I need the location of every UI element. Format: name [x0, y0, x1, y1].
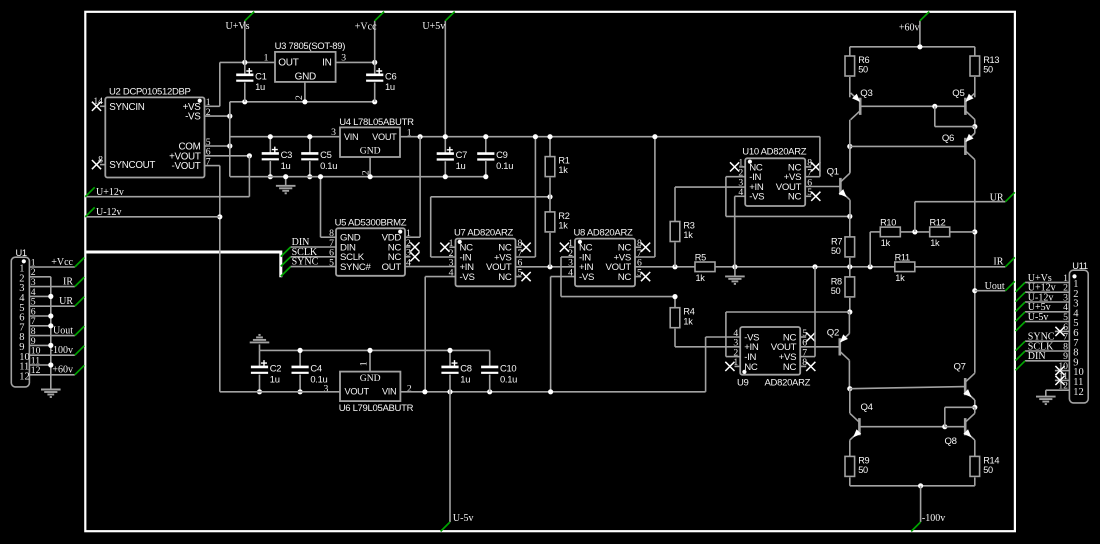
wire U11 pin 12 — [1046, 389, 1070, 391]
wire -12v vertical — [219, 166, 221, 392]
svg-text:1k: 1k — [683, 230, 693, 240]
junction — [918, 483, 923, 488]
wire U8 VOUT — [635, 266, 695, 268]
wire U1 pin 2 — [29, 276, 50, 278]
no-connect U11 pin10 — [1055, 366, 1064, 375]
svg-text:GND: GND — [360, 146, 381, 157]
wire Q1 emitter — [849, 200, 851, 216]
svg-text:0.1u: 0.1u — [500, 373, 517, 384]
port tick U11 pin 1 — [1016, 282, 1026, 292]
resistor R5 — [695, 252, 715, 283]
wire U5 gnd riser — [320, 177, 322, 238]
svg-text:1k: 1k — [558, 165, 568, 175]
wire +5v rail — [420, 136, 820, 138]
wire Q1 collector — [849, 146, 851, 172]
junction — [217, 214, 222, 219]
junction — [48, 323, 53, 328]
junction — [257, 389, 262, 394]
svg-text:IR: IR — [993, 257, 1003, 268]
svg-text:IN: IN — [322, 58, 331, 69]
svg-text:U3 7805(SOT-89): U3 7805(SOT-89) — [275, 41, 346, 52]
no-connect U7 pin8 — [522, 243, 531, 252]
op-amp U10 AD820ARZ — [738, 147, 812, 206]
junction — [372, 60, 377, 65]
svg-text:50: 50 — [858, 465, 868, 475]
wire C9 top — [485, 137, 487, 153]
wire U11 gnd drop — [1045, 390, 1047, 396]
wire U11 pin 10 — [1055, 370, 1070, 372]
svg-text:U8 AD820ARZ: U8 AD820ARZ — [574, 227, 634, 238]
op-amp U8 AD820ARZ — [568, 227, 642, 286]
svg-text:R13: R13 — [983, 55, 999, 65]
wire U1 pin 6 — [29, 315, 50, 317]
wire U7 +VS riser — [534, 137, 536, 257]
transistor Q7 — [954, 361, 975, 400]
bus entry IR — [75, 277, 85, 287]
svg-text:1k: 1k — [683, 316, 693, 326]
svg-text:GND: GND — [295, 71, 316, 82]
junction — [917, 44, 922, 49]
transistor Q3 — [851, 88, 873, 120]
wire U1 pin 7 — [29, 325, 50, 327]
wire U-5v drop — [449, 392, 451, 522]
resistor R1 — [545, 156, 570, 177]
wire R10 riser — [869, 232, 871, 267]
wire U10 VOUT to Q1 — [805, 186, 840, 188]
junction — [972, 124, 977, 129]
wire U1 pin 12 — [29, 374, 74, 376]
no-connect U9 pin1 — [725, 362, 734, 371]
wire U1 pin 10 — [29, 354, 74, 356]
capacitor C8 — [441, 360, 471, 384]
wire U10 +VS — [805, 176, 820, 178]
wire Q6 collector long — [974, 160, 976, 373]
wire Q7 base sloped — [850, 387, 965, 389]
junction — [418, 134, 423, 139]
wire Q2 emitter up — [848, 312, 850, 334]
bus entry SCLK — [281, 257, 291, 267]
wire Q5 diode link h — [935, 126, 975, 128]
transistor Q8 — [945, 413, 975, 447]
junction — [283, 174, 288, 179]
wire C8 top — [449, 350, 451, 366]
capacitor C7 — [437, 147, 467, 171]
wire U+5v vertical / C7 top — [444, 21, 446, 153]
capacitor C3 — [262, 147, 292, 171]
capacitor C9 — [477, 149, 513, 171]
wire U10 -IN — [726, 176, 745, 178]
bus — [85, 252, 280, 277]
resistor R12 — [930, 217, 950, 248]
svg-text:OUT: OUT — [382, 262, 402, 273]
transistor Q4 — [850, 402, 874, 440]
wire C2 top — [259, 350, 261, 366]
junction — [672, 294, 677, 299]
wire U8 +VS — [635, 256, 655, 258]
no-connect U10 pin5 — [811, 192, 820, 201]
wire R4 to U9 +IN — [675, 346, 740, 348]
svg-text:1k: 1k — [696, 273, 706, 283]
wire U9 -IN riser — [725, 312, 727, 357]
wire R4 bottom — [674, 329, 676, 347]
svg-text:U4 L78L05ABUTR: U4 L78L05ABUTR — [339, 117, 414, 128]
svg-text:-VS: -VS — [749, 192, 764, 203]
wire U9 +VS — [800, 356, 815, 358]
svg-text:C10: C10 — [500, 363, 516, 374]
junction — [298, 348, 303, 353]
wire R7 top — [849, 216, 851, 237]
svg-text:3: 3 — [331, 127, 336, 138]
svg-text:C1: C1 — [255, 70, 266, 81]
wire IR — [915, 266, 1005, 268]
wire SCLK — [291, 256, 336, 258]
port tick U11 pin 9 — [1016, 361, 1026, 371]
wire 12v row to U4 VIN — [230, 136, 340, 138]
wire U1 pin 9 — [29, 344, 50, 346]
wire R10 left — [870, 231, 880, 233]
wire R3 bottom — [674, 243, 676, 267]
svg-text:NC: NC — [783, 362, 797, 373]
wire U2 +VOUT — [205, 155, 250, 157]
wire U1 pin 4 — [29, 295, 50, 297]
wire U2 -VS — [205, 115, 230, 117]
wire gnd rail top — [230, 101, 375, 103]
wire U11 pin 11 — [1055, 379, 1070, 381]
wire U2 COM — [205, 145, 230, 147]
no-connect U11 pin11 — [1055, 376, 1064, 385]
wire UR — [915, 201, 1006, 203]
no-connect U10 pin1 — [730, 162, 739, 171]
svg-text:5: 5 — [329, 257, 334, 268]
svg-text:NC: NC — [618, 272, 632, 283]
junction — [868, 264, 873, 269]
svg-text:U11: U11 — [1072, 261, 1088, 271]
wire R12 right — [950, 231, 975, 233]
wire Q2 emitter row — [726, 311, 850, 313]
svg-text:R4: R4 — [683, 307, 694, 317]
junction — [652, 134, 657, 139]
junction — [483, 174, 488, 179]
junction — [443, 134, 448, 139]
resistor R6 — [845, 55, 870, 76]
svg-text:U+12v: U+12v — [96, 187, 124, 198]
resistor R4 — [670, 307, 695, 328]
no-connect U7 pin1 — [440, 243, 449, 252]
svg-text:1k: 1k — [881, 238, 891, 248]
port IR tick — [1005, 257, 1014, 266]
junction — [812, 264, 817, 269]
wire R3 top — [674, 187, 676, 221]
wire R4 top — [674, 297, 676, 308]
wire U1 pin 3 — [29, 286, 74, 288]
port +60v tick — [920, 12, 929, 21]
wire UR riser — [914, 202, 916, 232]
wire C10 top — [489, 350, 491, 366]
svg-text:U-12v: U-12v — [96, 207, 122, 218]
wire C4 top — [299, 350, 301, 366]
wire U11 pin 6 — [1055, 330, 1070, 332]
regulator U3 7805 — [264, 41, 347, 100]
wire U6 gnd riser — [369, 350, 371, 371]
wire U11 pin 2 — [1025, 291, 1069, 293]
svg-text:R5: R5 — [695, 252, 706, 262]
svg-text:1u: 1u — [385, 81, 395, 92]
wire U9 -VS — [706, 336, 741, 338]
wire U1 pin 1 — [29, 266, 74, 268]
wire +60v entry — [919, 21, 921, 47]
svg-text:R3: R3 — [683, 221, 694, 231]
svg-text:Q5: Q5 — [952, 88, 964, 99]
wire -5v rail left — [220, 391, 340, 393]
svg-text:U-5v: U-5v — [1028, 312, 1049, 323]
svg-text:GND: GND — [360, 373, 381, 384]
wire gnd stub mid — [734, 267, 736, 276]
resistor R8 — [831, 277, 855, 297]
op-amp U2 DCP010512DBP — [93, 86, 210, 177]
junction — [302, 99, 307, 104]
svg-text:AD820ARZ: AD820ARZ — [765, 378, 811, 389]
port U+12v tick — [85, 187, 94, 196]
junction — [847, 214, 852, 219]
wire SYNC — [291, 266, 336, 268]
svg-text:SYNC#: SYNC# — [340, 262, 371, 273]
svg-text:U1: U1 — [16, 248, 27, 258]
junction — [972, 229, 977, 234]
svg-text:NC: NC — [788, 192, 802, 203]
svg-text:Q6: Q6 — [942, 133, 954, 144]
wire Q4-Q8 base — [859, 426, 944, 428]
svg-text:R11: R11 — [895, 252, 910, 262]
svg-text:U+5v: U+5v — [422, 21, 445, 32]
no-connect U9 pin8 — [806, 362, 815, 371]
capacitor C5 — [301, 149, 337, 171]
port tick U11 pin 5 — [1016, 322, 1026, 332]
svg-text:U-5v: U-5v — [453, 513, 474, 524]
svg-text:SYNCIN: SYNCIN — [109, 102, 144, 113]
wire C7 bottom — [444, 161, 446, 176]
wire R1 top — [549, 137, 551, 157]
no-connect U2 pin 14 — [92, 102, 101, 111]
resistor R14 — [970, 455, 999, 476]
no-connect U2 pin 8 — [92, 160, 101, 169]
op-amp U7 AD820ARZ — [449, 227, 523, 286]
svg-text:UR: UR — [990, 192, 1004, 203]
port UR tick — [1005, 192, 1014, 201]
svg-text:1k: 1k — [895, 273, 905, 283]
wire Q8 collector up — [974, 407, 976, 413]
junction — [732, 264, 737, 269]
junction — [972, 288, 977, 293]
junction — [847, 309, 852, 314]
junction — [447, 348, 452, 353]
wire C8 bottom — [449, 375, 451, 392]
wire R3 top row to U10 +IN — [675, 186, 745, 188]
svg-text:Q1: Q1 — [827, 167, 839, 178]
junction — [847, 264, 852, 269]
junction — [227, 114, 232, 119]
wire Q7emitter to base row — [944, 407, 946, 426]
svg-text:R1: R1 — [558, 156, 569, 166]
wire U9 +VS riser — [814, 267, 816, 357]
svg-text:UR: UR — [59, 296, 73, 307]
no-connect U5 pin2 — [410, 242, 419, 251]
resistor R2 — [545, 211, 570, 232]
wire R1 bottom — [549, 178, 551, 197]
junction — [672, 264, 677, 269]
svg-text:VIN: VIN — [382, 387, 396, 397]
wire Q3-Q5 base — [860, 105, 965, 107]
junction — [48, 343, 53, 348]
svg-text:R9: R9 — [858, 455, 869, 465]
wire U8 +VS riser — [654, 137, 656, 257]
svg-text:-100v: -100v — [922, 513, 945, 524]
junction — [547, 264, 552, 269]
wire U5 VDD — [405, 236, 420, 238]
svg-text:C5: C5 — [320, 149, 331, 160]
svg-text:50: 50 — [831, 286, 841, 296]
svg-text:U9: U9 — [737, 378, 749, 389]
wire U-12v — [85, 216, 220, 218]
junction — [227, 143, 232, 148]
junction — [247, 153, 252, 158]
junction — [48, 362, 53, 367]
wire U11 pin 5 — [1025, 321, 1069, 323]
wire Q7 emitter row — [945, 406, 975, 408]
port Uout tick — [1005, 281, 1014, 290]
wire row 350 — [260, 349, 490, 351]
svg-text:+Vcc: +Vcc — [355, 22, 377, 33]
wire C4 bottom — [299, 375, 301, 392]
svg-text:VIN: VIN — [344, 132, 358, 142]
bus entry DIN — [281, 247, 291, 257]
junction — [942, 424, 947, 429]
junction — [242, 60, 247, 65]
svg-text:1k: 1k — [558, 221, 568, 231]
wire Uout — [975, 290, 1006, 292]
transistor Q6 — [942, 133, 975, 160]
wire Q6 emitter — [974, 127, 976, 133]
wire U1 ground bus — [50, 277, 52, 390]
wire U10 -VS drop — [734, 196, 736, 266]
no-connect U5 pin3 — [410, 252, 419, 261]
wire U2 +VS — [205, 105, 220, 107]
svg-text:VOUT: VOUT — [345, 387, 370, 397]
port tick U11 pin 4 — [1016, 312, 1026, 322]
resistor R13 — [970, 55, 999, 76]
svg-text:VOUT: VOUT — [372, 132, 397, 142]
wire R9 bottom — [849, 477, 851, 485]
port tick U11 pin 8 — [1016, 351, 1026, 361]
svg-text:U7 AD820ARZ: U7 AD820ARZ — [454, 227, 514, 238]
svg-text:C6: C6 — [385, 70, 396, 81]
wire R8 bottom — [849, 298, 851, 312]
transistor Q1 — [827, 167, 850, 200]
no-connect U8 pin1 — [560, 243, 569, 252]
wire U11 pin 4 — [1025, 311, 1069, 313]
svg-text:R7: R7 — [831, 237, 842, 247]
wire U8 feedback down — [560, 257, 562, 297]
wire R8 top — [849, 267, 851, 277]
port tick U11 pin 3 — [1016, 302, 1026, 312]
wire U8 feedback bottom — [561, 296, 675, 298]
svg-text:1u: 1u — [270, 373, 280, 384]
regulator U4 L78L05ABUTR — [331, 117, 414, 175]
wire U5 OUT to U7 +IN — [405, 266, 456, 268]
svg-text:C2: C2 — [270, 363, 281, 374]
wire gnd stub — [285, 177, 287, 186]
svg-text:3: 3 — [324, 383, 329, 394]
wire U11 pin 3 — [1025, 301, 1069, 303]
wire C6 bottom — [374, 83, 376, 102]
svg-text:U+Vs: U+Vs — [226, 21, 250, 32]
op-amp U9 AD820ARZ — [733, 327, 807, 375]
wire U9 VOUT to Q2 — [800, 346, 840, 348]
resistor R9 — [845, 455, 870, 476]
wire U7 +VS — [516, 256, 536, 258]
svg-text:1u: 1u — [281, 160, 291, 171]
capacitor C1 — [236, 68, 266, 92]
no-connect U10 pin8 — [811, 162, 820, 171]
port tick U11 pin 2 — [1016, 292, 1026, 302]
svg-text:Q4: Q4 — [861, 402, 874, 413]
wire U8 -IN — [561, 256, 575, 258]
wire U11 pin 9 — [1025, 360, 1069, 362]
svg-text:1: 1 — [359, 361, 370, 366]
connector U11 — [1058, 261, 1088, 403]
wire U9 -VS drop — [705, 337, 707, 392]
junction — [298, 389, 303, 394]
port -100v tick — [911, 522, 920, 531]
svg-text:2: 2 — [294, 95, 305, 100]
wire gnd stub down — [259, 344, 261, 350]
wire Q7 emitter down — [974, 400, 976, 407]
wire base to Q8 — [945, 426, 965, 428]
svg-text:R8: R8 — [831, 277, 842, 287]
svg-text:C4: C4 — [310, 363, 321, 374]
wire R10-R12 — [901, 231, 929, 233]
port tick U11 pin 7 — [1016, 341, 1026, 351]
junction — [443, 174, 448, 179]
wire U+12v — [85, 196, 249, 198]
wire corner x230 — [229, 102, 231, 116]
junction — [487, 389, 492, 394]
svg-text:R14: R14 — [983, 455, 999, 465]
wire U+Vs vertical — [244, 21, 246, 75]
wire C3 top — [269, 137, 271, 153]
wire U7 -VS drop — [424, 277, 426, 392]
wire R2 bottom — [549, 233, 551, 267]
capacitor C4 — [292, 363, 328, 385]
svg-text:+Vcc: +Vcc — [51, 257, 73, 268]
svg-text:OUT: OUT — [278, 58, 298, 69]
wire DIN — [291, 246, 336, 248]
bus entry -100v — [75, 346, 85, 356]
junction — [548, 389, 553, 394]
wire U10 fb down — [725, 177, 727, 217]
wire U3 pin1 — [245, 61, 275, 63]
bus entry Uout — [75, 326, 85, 336]
wire U11 pin 8 — [1025, 350, 1069, 352]
svg-text:Uout: Uout — [985, 281, 1005, 292]
junction — [912, 229, 917, 234]
svg-text:U6 L79L05ABUTR: U6 L79L05ABUTR — [339, 403, 414, 414]
svg-text:12: 12 — [1073, 387, 1084, 398]
svg-text:Q2: Q2 — [827, 327, 839, 338]
wire U10 fb bottom — [726, 215, 850, 217]
junction — [483, 134, 488, 139]
wire Q5 collector — [974, 120, 976, 127]
svg-text:NC: NC — [744, 362, 758, 373]
